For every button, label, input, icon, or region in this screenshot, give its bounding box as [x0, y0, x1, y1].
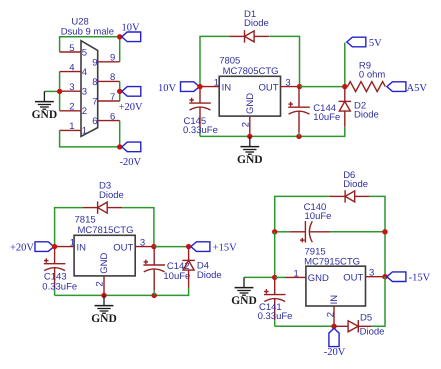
svg-text:3: 3: [69, 82, 74, 93]
svg-text:5V: 5V: [369, 38, 382, 49]
svg-text:+15V: +15V: [213, 243, 237, 254]
junction dot 10V input: [197, 84, 202, 89]
wire OUT node to 5V node: [300, 86, 345, 88]
wire pin1 to -20V port: [60, 130, 120, 147]
svg-text:9: 9: [92, 57, 97, 68]
top rail to D6: [275, 196, 331, 231]
svg-text:0 ohm: 0 ohm: [359, 70, 385, 81]
svg-text:GND: GND: [237, 154, 263, 166]
connector U28 pin 8 (right): [98, 80, 120, 82]
connector U28 pin 2 (left): [60, 110, 81, 112]
capacitor C145: [189, 87, 211, 129]
svg-text:1: 1: [69, 121, 74, 132]
ground symbol GND (7815): [95, 295, 114, 313]
port A5V: [387, 82, 406, 92]
svg-text:GND: GND: [99, 253, 110, 274]
svg-text:0.33uFe: 0.33uFe: [42, 281, 77, 292]
junction dot +20V input: [52, 244, 57, 249]
svg-text:1: 1: [214, 78, 219, 89]
svg-text:5: 5: [69, 43, 74, 54]
7805 pin 3 OUT: [281, 86, 300, 88]
svg-text:6: 6: [110, 111, 115, 122]
diode D6: [330, 190, 370, 202]
port 5V: [347, 37, 366, 47]
svg-text:GND: GND: [231, 295, 257, 307]
svg-text:1: 1: [70, 238, 75, 249]
svg-text:0.33uFe: 0.33uFe: [183, 125, 218, 136]
wire D6 to right rail: [370, 196, 385, 276]
bottom rail 7815: [55, 288, 189, 296]
svg-text:OUT: OUT: [259, 82, 279, 93]
svg-text:2: 2: [240, 122, 251, 127]
capacitor C140 rail left wire: [275, 231, 290, 233]
ground symbol GND (U28): [35, 91, 54, 109]
svg-text:GND: GND: [32, 109, 58, 121]
svg-text:Diode: Diode: [197, 270, 222, 281]
svg-text:+20V: +20V: [119, 102, 143, 113]
svg-text:GND: GND: [308, 273, 329, 284]
ground symbol GND (7805): [240, 136, 259, 154]
connector U28 pin 5 (left): [60, 51, 81, 53]
svg-text:Diode: Diode: [99, 190, 124, 201]
wire D3 to OUT node: [122, 208, 154, 247]
junction dot 10V port: [117, 34, 122, 39]
port -15V: [387, 272, 406, 282]
wire OUT node to +15V port: [154, 246, 189, 248]
left rail down to GND pin: [274, 232, 276, 278]
svg-text:9: 9: [110, 53, 115, 64]
connector U28 body: [81, 41, 98, 137]
svg-text:2: 2: [82, 106, 87, 117]
diode D2: [339, 87, 351, 127]
wire 10V port down to pin9: [119, 37, 121, 62]
svg-text:2: 2: [95, 281, 106, 286]
connector U28 pin 6 (right): [98, 120, 120, 122]
junction dot pin2 rail: [247, 134, 252, 139]
7805 pin 2 GND: [249, 116, 251, 136]
svg-text:3: 3: [369, 268, 374, 279]
junction dot pin3/GND: [57, 89, 62, 94]
svg-text:10V: 10V: [158, 83, 177, 94]
svg-text:8: 8: [110, 72, 115, 83]
svg-text:-15V: -15V: [409, 273, 431, 284]
capacitor C140: [290, 221, 330, 243]
svg-text:6: 6: [92, 116, 97, 127]
junction dot 7915 pin1: [272, 275, 277, 280]
junction dot C140 left: [272, 229, 277, 234]
bottom rail 7915: [275, 325, 334, 327]
7805 pin 1 IN: [200, 86, 219, 88]
junction dot C142 rail: [152, 293, 157, 298]
junction dot OUT node: [297, 84, 302, 89]
port -20V: [329, 328, 339, 346]
wire 10V port up to D1: [200, 36, 230, 86]
svg-text:3: 3: [140, 238, 145, 249]
svg-text:10uFe: 10uFe: [313, 112, 340, 123]
7815 pin 1 IN: [55, 246, 75, 248]
7815 pin 2 GND: [103, 276, 105, 296]
svg-text:Diode: Diode: [343, 179, 368, 190]
svg-text:4: 4: [69, 62, 74, 73]
junction dot 7915 OUT: [382, 274, 387, 279]
svg-text:10V: 10V: [122, 23, 141, 34]
svg-text:D5: D5: [360, 313, 372, 324]
svg-text:5: 5: [82, 47, 87, 58]
svg-text:IN: IN: [77, 242, 87, 253]
port 10V (top of U28): [122, 32, 141, 42]
capacitor C144: [288, 87, 310, 133]
svg-text:10uFe: 10uFe: [163, 271, 190, 282]
junction dot +20V port: [117, 89, 122, 94]
wire bus pins 4-3-2 (left): [59, 72, 61, 111]
capacitor C143: [44, 247, 66, 290]
junction dot -20V node: [331, 324, 336, 329]
svg-text:Dsub 9 male: Dsub 9 male: [61, 26, 114, 37]
7915 pin 1 GND: [275, 276, 285, 278]
connector U28 pin 9 (right): [98, 61, 120, 63]
7915 pin 3 OUT: [366, 276, 386, 278]
wire pin6 down to -20V port: [119, 121, 121, 147]
junction dot C144 rail: [296, 134, 301, 139]
svg-text:OUT: OUT: [113, 242, 133, 253]
connector U28 pin 1 (left): [60, 129, 81, 131]
7915 pin 2 IN: [333, 306, 335, 326]
port -20V (U28): [122, 142, 141, 152]
diode D5: [334, 320, 371, 332]
junction dot C140 right: [382, 229, 387, 234]
capacitor C141: [264, 277, 286, 320]
connector U28 pin 7 (right): [98, 100, 120, 102]
svg-text:MC7815CTG: MC7815CTG: [78, 225, 134, 236]
svg-text:1: 1: [294, 268, 299, 279]
port +20V (U28): [122, 87, 141, 97]
regulator 7915 body: [306, 266, 366, 306]
svg-text:GND: GND: [91, 313, 117, 325]
svg-text:2: 2: [69, 102, 74, 113]
svg-text:3: 3: [285, 78, 290, 89]
svg-text:+20V: +20V: [10, 243, 34, 254]
wire +20V port up to D3: [55, 208, 83, 247]
wire GND symbol to pin1 node: [244, 276, 275, 278]
svg-text:Diode: Diode: [244, 18, 269, 29]
svg-text:7: 7: [110, 92, 115, 103]
svg-text:7815: 7815: [75, 215, 96, 226]
svg-text:OUT: OUT: [343, 272, 363, 283]
svg-text:-20V: -20V: [324, 347, 346, 358]
7815 pin 3 OUT: [135, 246, 154, 248]
connector U28 pin 4 (left): [60, 71, 81, 73]
regulator 7815 body: [74, 235, 135, 276]
svg-text:0.33uFe: 0.33uFe: [258, 311, 293, 322]
svg-text:3: 3: [82, 87, 87, 98]
svg-text:10uFe: 10uFe: [305, 211, 332, 222]
bottom rail 7805: [200, 127, 345, 136]
junction dot +15V node: [186, 244, 191, 249]
diode D1: [230, 30, 270, 42]
wire GND to pin3 junction: [44, 90, 59, 92]
port +15V: [191, 242, 210, 252]
svg-text:IN: IN: [222, 82, 232, 93]
svg-text:-20V: -20V: [120, 157, 142, 168]
svg-text:MC7805CTG: MC7805CTG: [223, 66, 279, 77]
ground symbol GND (7915): [235, 277, 254, 295]
resistor R9: [348, 82, 386, 92]
svg-text:Diode: Diode: [360, 326, 385, 337]
junction dot 5V node: [342, 84, 347, 89]
svg-text:IN: IN: [329, 295, 340, 305]
junction dot 7815 pin2 rail: [101, 293, 106, 298]
wire 5V port down: [344, 43, 346, 87]
svg-text:4: 4: [82, 67, 87, 78]
svg-text:GND: GND: [245, 93, 256, 114]
junction dot -20V port: [117, 144, 122, 149]
capacitor C142: [143, 247, 165, 291]
connector U28 pin 3 (left): [60, 90, 81, 92]
junction dot 7815 OUT node: [151, 244, 156, 249]
diode D4: [182, 247, 194, 288]
wire D5 to right rail: [371, 277, 385, 327]
wire D1 to OUT node: [269, 36, 299, 86]
wire C140 to right rail: [330, 231, 385, 233]
regulator 7805 body: [219, 76, 280, 116]
port +20V (7815 input): [35, 242, 54, 252]
svg-text:2: 2: [326, 312, 337, 317]
svg-text:7: 7: [92, 97, 97, 108]
wire pins 8-7 (right) to +20V: [119, 81, 121, 101]
diode D3: [83, 201, 123, 213]
svg-text:Diode: Diode: [354, 110, 379, 121]
svg-text:8: 8: [92, 77, 97, 88]
svg-text:1: 1: [82, 126, 87, 137]
port 10V (7805 input): [181, 82, 200, 92]
svg-text:A5V: A5V: [407, 83, 428, 94]
wire pin5 to 10V port (top): [60, 37, 120, 52]
svg-text:7805: 7805: [219, 56, 240, 67]
